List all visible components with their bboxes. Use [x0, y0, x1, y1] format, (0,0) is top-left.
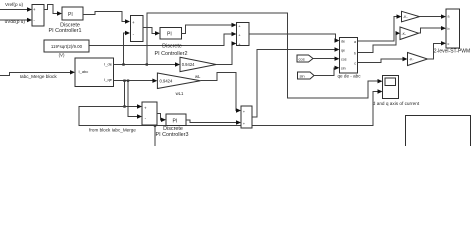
from tag sin	[298, 72, 315, 79]
svg-text:a: a	[448, 15, 450, 19]
partially visible block bottom right	[406, 116, 471, 156]
arrowhead into scope input1	[378, 79, 383, 83]
wire PI3 to sum5 input2	[186, 120, 241, 125]
wire junction to sum4 input1	[125, 104, 143, 108]
wire uVdc into sum1	[0, 18, 32, 22]
svg-text:2-level-ST-PWM: 2-level-ST-PWM	[434, 49, 470, 55]
PI controller U1 Discrete PI Controller1	[62, 7, 83, 20]
svg-text:Vref(p u): Vref(p u)	[5, 2, 24, 7]
wire I_qe to sum4 input2	[128, 81, 142, 119]
label Discrete PI Controller1	[49, 22, 82, 34]
svg-text:PI: PI	[173, 118, 178, 124]
abc to dq transform block	[75, 58, 114, 87]
svg-text:wL1: wL1	[176, 91, 184, 96]
wire a output to gain A	[358, 14, 402, 41]
svg-text:sin: sin	[300, 73, 305, 78]
wire sum3 to dq-abc de input	[249, 34, 340, 43]
wire sum4 to PI3	[157, 114, 166, 123]
wire Iabc into abc-dq block	[0, 70, 75, 75]
arrowhead into scope input2	[378, 89, 383, 93]
junction on I_qe to sum4 minus	[127, 80, 129, 82]
sum block Sum3	[237, 23, 250, 47]
junction at sum4 input horizontal	[123, 105, 125, 107]
svg-text:wL: wL	[195, 74, 201, 79]
svg-text:qe: qe	[341, 48, 345, 52]
wire I_de feedback up to sum2 minus	[124, 31, 131, 65]
svg-text:cos: cos	[299, 56, 305, 61]
svg-text:0.9424: 0.9424	[160, 78, 173, 83]
wire top feedback loop I_de to scope input1	[147, 13, 378, 98]
PI controller U2 Discrete PI Controller2	[160, 28, 182, 39]
wire gain A to PWM a	[420, 14, 447, 18]
svg-text:PI Controller3: PI Controller3	[156, 132, 189, 138]
svg-text:+: +	[33, 7, 36, 12]
svg-text:cos: cos	[341, 57, 347, 61]
svg-text:from block Iabc_Merge: from block Iabc_Merge	[89, 128, 136, 133]
constant block 119*sqrt(2)/9.00	[44, 40, 89, 52]
svg-text:PI Controller2: PI Controller2	[155, 51, 188, 57]
junction on I_qe down branch	[123, 80, 125, 82]
wire I_qe to gain wL1	[114, 79, 158, 83]
wire wL1 gain to sum5 input1	[200, 73, 241, 113]
wire cos tag to dq-abc cos input	[313, 57, 340, 61]
gain A -K-	[402, 11, 420, 21]
wire sum1 to PI1	[44, 5, 62, 16]
PWM generator block 2-level-ST-PWM	[446, 9, 460, 48]
gain wL 0.9424	[180, 57, 216, 71]
wire PI1 to sum2 plus	[83, 12, 130, 24]
svg-text:Iabc_Merge block: Iabc_Merge block	[20, 74, 58, 79]
wire c output to gain C	[358, 57, 408, 63]
junction on bottom wire branch down	[154, 125, 156, 127]
wire U loop to bottom long wire (scope feed)	[79, 92, 378, 126]
wire b output to gain B	[358, 31, 401, 53]
wire branch down to image edge	[154, 126, 156, 146]
wire Vref into sum1	[0, 7, 32, 11]
svg-text:+: +	[144, 106, 147, 111]
svg-text:sin: sin	[341, 67, 346, 71]
svg-text:PI: PI	[167, 32, 172, 38]
sum block Sum4	[142, 102, 157, 125]
wire I_de to gain wL	[114, 62, 181, 66]
svg-text:b: b	[448, 27, 450, 31]
wire wL gain to sum3 input3	[216, 41, 236, 64]
sum block Sum1	[32, 5, 44, 27]
svg-text:de: de	[341, 39, 345, 43]
gain wL1 0.9424	[157, 73, 200, 89]
svg-text:I_de: I_de	[104, 61, 113, 66]
sum block Sum2	[131, 16, 144, 42]
wire constant to sum3 input2	[89, 32, 237, 46]
svg-text:+: +	[132, 20, 135, 25]
sum block Sum5	[241, 106, 252, 128]
gain C -K-	[408, 53, 428, 66]
svg-text:I_abc: I_abc	[79, 69, 89, 74]
svg-text:PI: PI	[68, 12, 73, 18]
PI controller U3 Discrete PI Controller3	[166, 114, 186, 126]
svg-text:b: b	[354, 51, 356, 55]
wire I_qe down to sum4 area junction	[124, 81, 126, 107]
svg-text:Discrete: Discrete	[162, 43, 182, 49]
svg-text:(V): (V)	[59, 53, 65, 58]
junction on I_de for top loop	[146, 63, 148, 65]
dq to abc transform block	[340, 38, 358, 74]
svg-text:119*sqrt(2)/9.00: 119*sqrt(2)/9.00	[51, 44, 83, 49]
wire sum5 up to dq-abc qe input	[252, 47, 340, 117]
wire gain B to PWM b	[419, 26, 447, 33]
wire sum2 to PI2	[143, 28, 160, 36]
svg-text:c: c	[448, 42, 450, 46]
svg-text:c: c	[354, 61, 356, 65]
from tag cos	[297, 55, 313, 62]
svg-text:0.9424: 0.9424	[182, 62, 195, 67]
wire sin tag to dq-abc sin input	[314, 66, 340, 76]
label Discrete PI Controller2	[155, 43, 188, 57]
wire PI2 to sum3 input1	[182, 23, 237, 34]
svg-text:Discrete: Discrete	[163, 126, 183, 132]
wire gain C to PWM c	[428, 41, 447, 59]
svg-text:a: a	[354, 40, 356, 44]
svg-text:qe de - abc: qe de - abc	[338, 74, 362, 79]
junction on I_de for sum2 feedback	[122, 63, 124, 65]
svg-text:d and q axis of current: d and q axis of current	[373, 101, 420, 106]
gain B -K-	[400, 27, 419, 40]
label Discrete PI Controller3	[156, 126, 189, 138]
scope block d and q axis of current	[383, 75, 399, 98]
svg-text:PI Controller1: PI Controller1	[49, 28, 82, 34]
svg-text:I_qe: I_qe	[104, 77, 113, 82]
